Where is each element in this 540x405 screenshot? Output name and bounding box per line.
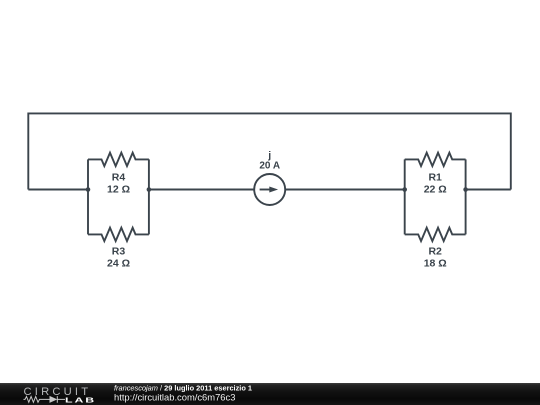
- current source arrowhead: [269, 187, 278, 193]
- svg-text:R3: R3: [112, 246, 126, 258]
- current source arrow: [260, 189, 271, 191]
- svg-text:18 Ω: 18 Ω: [424, 258, 447, 270]
- wire left group left branch: [87, 159, 89, 234]
- CircuitLab logo resistor squiggle: [24, 396, 66, 403]
- resistor R1: [405, 153, 466, 166]
- node C junction dot: [402, 187, 407, 192]
- resistor R2: [405, 228, 466, 241]
- wire node D to right loop: [466, 189, 511, 191]
- svg-text:R4: R4: [112, 172, 126, 184]
- CircuitLab logo diode triangle: [50, 396, 58, 403]
- svg-text:12 Ω: 12 Ω: [107, 184, 130, 196]
- node D junction dot: [463, 187, 468, 192]
- svg-text:20 A: 20 A: [259, 161, 280, 172]
- wire current source to node C: [285, 189, 405, 191]
- wire right group right branch: [465, 159, 467, 234]
- wire top loop: [28, 113, 511, 189]
- svg-text:http://circuitlab.com/c6m76c3: http://circuitlab.com/c6m76c3: [114, 391, 235, 402]
- svg-text:LAB: LAB: [65, 396, 96, 404]
- wire left group right branch: [148, 159, 150, 234]
- node B junction dot: [147, 187, 152, 192]
- CircuitLab logo diode cathode bar and wire: [57, 396, 65, 403]
- resistor R4: [88, 153, 149, 166]
- svg-text:R2: R2: [428, 246, 442, 258]
- svg-text:22 Ω: 22 Ω: [424, 184, 447, 196]
- svg-text:R1: R1: [428, 172, 442, 184]
- resistor R3: [88, 228, 149, 241]
- wire right group left branch: [404, 159, 406, 234]
- wire left node feed: [28, 189, 88, 191]
- node A junction dot: [86, 187, 91, 192]
- svg-text:24 Ω: 24 Ω: [107, 258, 130, 270]
- current source J1 circle: [254, 174, 285, 205]
- wire node B to current source: [149, 189, 254, 191]
- footer bar: [0, 383, 540, 405]
